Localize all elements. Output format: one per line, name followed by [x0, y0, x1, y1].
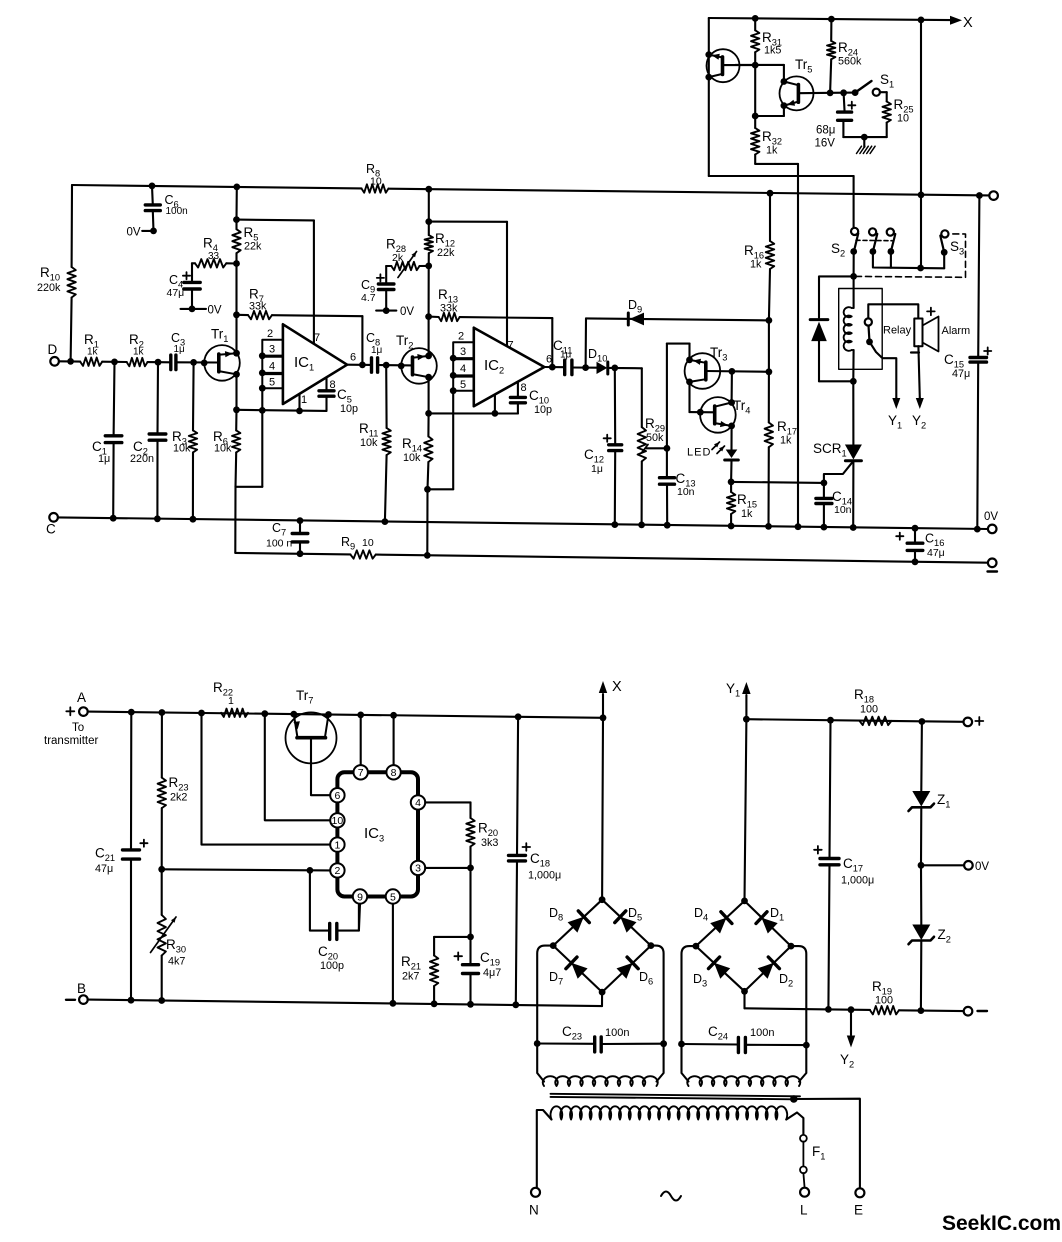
resistor R10 — [71, 185, 74, 267]
switch S1 — [852, 89, 859, 96]
wire IC3 pin10 line — [265, 714, 330, 821]
resistor R29 (preset) — [638, 427, 646, 461]
svg-text:R23: R23 — [169, 775, 189, 793]
capacitor C16 — [914, 528, 916, 543]
svg-text:Tr3: Tr3 — [710, 345, 727, 363]
ground 0V C4 — [181, 308, 207, 310]
wire R6 down to R9 line — [234, 487, 236, 553]
capacitor C13 — [666, 448, 668, 477]
wire junction dot C6 — [149, 183, 156, 190]
svg-text:10k: 10k — [360, 437, 378, 449]
resistor R9 — [350, 550, 375, 558]
wire R16 to Tr3 base node — [768, 320, 770, 371]
resistor R18 in row — [860, 717, 892, 725]
wire dashed link box — [856, 234, 966, 277]
node X arrow up — [602, 694, 604, 718]
svg-text:1μ: 1μ — [174, 344, 186, 355]
capacitor C11 — [563, 360, 566, 375]
svg-text:100n: 100n — [750, 1027, 774, 1039]
wire Tr6 base to R31 bottom — [723, 64, 756, 66]
svg-text:1k: 1k — [133, 347, 145, 358]
wire relay-diode branch — [819, 276, 854, 317]
svg-text:Y2: Y2 — [840, 1052, 854, 1070]
resistor R13 — [439, 313, 460, 321]
svg-text:Y2: Y2 — [912, 413, 926, 431]
wire IC1 output — [347, 364, 371, 366]
resistor R25 — [883, 102, 891, 123]
svg-text:0V: 0V — [127, 227, 141, 239]
capacitor C19 — [469, 937, 471, 965]
svg-text:0V: 0V — [208, 305, 222, 317]
wire main supply rail left of R8 — [72, 185, 362, 188]
transformer secondary coil 2 — [687, 1076, 800, 1086]
svg-text:560k: 560k — [838, 56, 862, 68]
wire Tr7 base to IC3 pin6 — [311, 738, 330, 796]
wire 0V stub — [921, 864, 964, 866]
wire R31 junction down to R32 node — [754, 66, 756, 116]
transistor Tr2 — [401, 348, 437, 384]
svg-text:10n: 10n — [677, 486, 695, 498]
svg-text:3: 3 — [415, 863, 421, 875]
resistor R5 — [232, 229, 240, 253]
wire junction dot right branch top — [918, 17, 925, 24]
svg-text:9: 9 — [357, 891, 363, 903]
transistor Tr3 — [685, 353, 721, 389]
svg-text:D: D — [48, 342, 58, 357]
svg-text:IC1: IC1 — [294, 354, 314, 373]
svg-text:Tr4: Tr4 — [733, 398, 750, 416]
svg-text:7: 7 — [508, 340, 514, 352]
wire IC1 pin8 lead — [325, 377, 327, 391]
svg-text:16V: 16V — [815, 138, 836, 150]
svg-text:D8: D8 — [549, 906, 563, 923]
resistor R1 — [80, 358, 102, 366]
svg-text:S2: S2 — [831, 241, 845, 259]
fuse F1 — [800, 1135, 807, 1142]
wire R5 branch top — [235, 187, 237, 220]
svg-text:transmitter: transmitter — [44, 735, 98, 747]
resistor R15 — [727, 492, 735, 514]
wire D10 to R29 corner — [608, 367, 642, 369]
wire zener chain top — [920, 722, 923, 791]
capacitor C10 — [510, 396, 525, 399]
svg-text:4k7: 4k7 — [168, 956, 185, 968]
svg-text:3: 3 — [460, 346, 466, 358]
svg-text:Z1: Z1 — [937, 792, 950, 810]
wire Tr5 emitter down to R32 node — [783, 106, 785, 116]
IC3 pin 10 — [330, 813, 344, 827]
svg-text:100n: 100n — [605, 1027, 629, 1039]
svg-text:R15: R15 — [737, 492, 757, 510]
wire Tr5 output row — [798, 92, 855, 95]
svg-text:1: 1 — [334, 839, 340, 851]
wire secondary1 right — [657, 1044, 664, 1082]
IC3 pin 5 — [386, 889, 400, 903]
wire bridge2 left loop — [682, 946, 696, 1044]
wire S2 pole1 down to relay node — [853, 252, 855, 277]
transistor Tr6 (unlabelled) — [707, 49, 740, 82]
wire R2-C3 — [148, 361, 171, 363]
IC3 pin 3 — [411, 861, 425, 875]
svg-text:2k7: 2k7 — [402, 971, 419, 983]
relay coil — [853, 276, 855, 308]
resistor R3 — [192, 362, 195, 430]
terminal A — [79, 707, 88, 716]
zener Z1 — [912, 791, 930, 807]
wire junction dot R12 branch — [425, 186, 432, 193]
wire zener mid — [920, 807, 922, 865]
svg-text:1k: 1k — [741, 508, 753, 520]
capacitor C3 — [169, 355, 172, 370]
alarm sounder — [914, 319, 922, 347]
wire IC2 output — [544, 366, 564, 368]
svg-text:22k: 22k — [244, 241, 262, 253]
resistor R19 in line — [870, 1006, 899, 1014]
svg-text:D1: D1 — [770, 906, 784, 923]
node Y2 arrow down — [850, 1010, 852, 1035]
IC3 pin 4 — [411, 795, 425, 809]
svg-text:R11: R11 — [359, 421, 378, 439]
ground 0V C6 — [142, 230, 153, 232]
wire Tr3 collector to Tr4 base — [688, 382, 690, 412]
resistor R8 — [362, 184, 389, 192]
IC3 pin 1 — [330, 837, 344, 851]
terminal plus right — [964, 718, 973, 727]
svg-text:C18: C18 — [530, 851, 550, 869]
svg-text:0V: 0V — [984, 511, 998, 523]
wire R5 to R7 node — [235, 264, 237, 315]
svg-text:Y1: Y1 — [888, 413, 902, 431]
wire R7 feedback drop — [361, 316, 363, 365]
svg-text:1k: 1k — [780, 435, 792, 447]
svg-text:C10: C10 — [529, 388, 549, 406]
LED — [726, 450, 738, 459]
wire R9 line right — [376, 555, 988, 563]
diode D11 (relay catch) — [811, 322, 827, 342]
ground 0V C9 — [376, 310, 396, 312]
svg-text:10p: 10p — [534, 404, 552, 416]
capacitor C23 — [537, 1042, 595, 1044]
svg-text:2k2: 2k2 — [170, 792, 187, 804]
capacitor C18 — [517, 717, 518, 856]
wire B rail — [88, 1000, 602, 1007]
svg-text:LED: LED — [687, 447, 711, 459]
svg-text:C21: C21 — [95, 846, 115, 864]
node Y1 arrow — [892, 398, 900, 409]
svg-text:100: 100 — [875, 995, 893, 1007]
svg-text:1: 1 — [228, 695, 234, 707]
wire S1 to R25 — [880, 91, 887, 93]
capacitor C15 — [970, 356, 987, 359]
wire bridge1 left loop — [537, 946, 553, 1044]
svg-text:C20: C20 — [318, 944, 338, 962]
svg-text:4: 4 — [415, 797, 421, 809]
wire long drop x=798 to 0V rail — [797, 164, 799, 527]
capacitor C7 — [299, 521, 301, 534]
svg-text:1k: 1k — [87, 347, 99, 358]
resistor R24 — [827, 41, 835, 59]
svg-text:33k: 33k — [249, 301, 267, 313]
svg-text:10k: 10k — [214, 443, 232, 455]
wire IC3 pin2 line — [162, 869, 331, 870]
wire R21 branch — [434, 936, 470, 938]
wire C13 node up and over to Tr3 emitter — [666, 344, 668, 449]
wire IC3 pin4 line — [425, 801, 470, 803]
capacitor C20 loop — [310, 870, 330, 930]
svg-text:R14: R14 — [402, 436, 422, 454]
terminal L — [800, 1188, 809, 1197]
resistor R31 — [751, 30, 759, 52]
svg-text:47μ: 47μ — [952, 368, 970, 380]
capacitor C1 — [113, 362, 116, 436]
svg-text:R12: R12 — [435, 231, 455, 249]
resistor R14 — [424, 436, 432, 462]
svg-text:10k: 10k — [403, 452, 421, 464]
wire Tr6 jog over to S2 — [709, 175, 854, 177]
resistor R6 — [235, 374, 237, 410]
relay box — [839, 289, 883, 370]
IC3 pin 8 — [386, 765, 400, 779]
wire zener chain bottom — [920, 941, 922, 1011]
svg-text:IC2: IC2 — [484, 357, 504, 376]
svg-text:6: 6 — [350, 352, 356, 364]
svg-text:Alarm: Alarm — [942, 325, 971, 337]
svg-text:D3: D3 — [693, 972, 707, 989]
wire R29 drop — [641, 368, 643, 427]
svg-text:Tr5: Tr5 — [795, 57, 812, 75]
wire bridge2 minus to R19 line — [743, 991, 745, 1008]
svg-text:D10: D10 — [588, 347, 607, 364]
wire secondary1 left — [537, 1044, 544, 1082]
svg-text:C15: C15 — [944, 352, 964, 370]
svg-text:IC3: IC3 — [364, 825, 384, 844]
thyristor SCR1 — [852, 381, 854, 444]
resistor R23 — [158, 778, 166, 809]
svg-text:0V: 0V — [975, 861, 989, 873]
wire junction dot R24 top — [828, 16, 835, 23]
svg-text:33k: 33k — [440, 303, 458, 315]
svg-text:47μ: 47μ — [167, 287, 185, 299]
svg-text:22k: 22k — [437, 247, 455, 259]
capacitor C9 — [386, 265, 391, 267]
svg-text:E: E — [854, 1203, 863, 1218]
svg-text:To: To — [72, 722, 84, 734]
terminal N — [531, 1188, 540, 1197]
svg-text:1μ: 1μ — [371, 345, 383, 356]
wire 0V rail — [58, 517, 988, 529]
svg-text:47μ: 47μ — [95, 863, 113, 875]
resistor R22 — [221, 709, 248, 717]
wire alarm to Y2 — [918, 346, 919, 398]
switch S2 pole2 — [869, 228, 876, 235]
terminal D — [50, 357, 59, 366]
svg-text:7: 7 — [358, 767, 364, 779]
wire R14 down to R9 line — [426, 489, 428, 555]
svg-text:1: 1 — [301, 394, 307, 406]
svg-text:C24: C24 — [708, 1024, 728, 1042]
svg-text:4: 4 — [460, 363, 466, 375]
svg-text:4μ7: 4μ7 — [483, 967, 501, 979]
svg-text:7: 7 — [314, 332, 320, 344]
svg-text:6: 6 — [546, 354, 552, 366]
transformer core — [551, 1094, 801, 1097]
svg-text:5: 5 — [269, 377, 275, 389]
wire 0V rail dots — [110, 515, 117, 522]
wire R12 branch — [428, 189, 430, 221]
resistor R16 — [766, 241, 774, 269]
svg-text:1μ: 1μ — [591, 463, 603, 475]
svg-text:A: A — [77, 690, 86, 705]
wire relay contact top to alarm — [868, 304, 918, 318]
svg-text:8: 8 — [521, 382, 527, 394]
wire junction dot right rail top — [976, 192, 983, 199]
terminal 0V bottom — [964, 861, 973, 870]
svg-text:D7: D7 — [549, 970, 563, 987]
ground symbol — [861, 134, 868, 141]
wire IC2 pin1 lead — [494, 395, 496, 414]
svg-text:10: 10 — [362, 537, 374, 549]
svg-text:R29: R29 — [645, 416, 665, 434]
op-amp IC2 triangle — [474, 328, 545, 407]
svg-text:68μ: 68μ — [816, 125, 835, 137]
diode D5 — [620, 917, 636, 933]
wire Tr3 base row — [706, 370, 769, 373]
resistor R7 — [248, 311, 272, 319]
svg-text:1k5: 1k5 — [764, 45, 781, 57]
svg-text:47μ: 47μ — [927, 547, 945, 559]
wire diode to SCR node — [819, 380, 853, 382]
wire junction dot R16 branch — [767, 190, 774, 197]
wire R7 node to Tr1 — [235, 315, 237, 353]
node X arrow — [950, 16, 962, 25]
transistor Tr4 — [700, 397, 736, 433]
svg-text:R10: R10 — [40, 265, 60, 283]
wire R32 bottom jog to long drop — [754, 155, 756, 164]
resistor R21 — [430, 956, 438, 987]
svg-text:C: C — [46, 522, 56, 537]
op-amp IC1 pin boxes — [262, 340, 283, 356]
op-amp IC1 triangle — [283, 324, 347, 404]
diode D7 — [571, 963, 587, 979]
svg-text:C5: C5 — [337, 387, 352, 405]
wire C11 to D10 — [572, 366, 597, 368]
svg-text:C19: C19 — [480, 950, 500, 968]
terminal minus right — [988, 559, 997, 568]
svg-text:X: X — [612, 679, 622, 695]
terminal minus bottom — [964, 1007, 973, 1016]
AC tilde symbol — [661, 1192, 681, 1201]
wire C19 branch — [469, 868, 471, 937]
svg-text:5: 5 — [460, 379, 466, 391]
svg-text:D6: D6 — [639, 970, 653, 987]
wire junction dot 68u top — [840, 89, 847, 96]
wire Tr4 collector riser — [731, 371, 733, 402]
wire SCR gate bend — [824, 463, 852, 483]
wire IC2 pin7 feed — [429, 221, 507, 223]
wire Y1 row — [746, 719, 963, 722]
svg-text:C23: C23 — [562, 1024, 582, 1042]
wire IC3 pin3 line — [425, 867, 470, 869]
svg-text:1,000μ: 1,000μ — [528, 870, 561, 882]
svg-text:C16: C16 — [925, 532, 944, 549]
wire C3 to Tr1 base — [176, 361, 219, 363]
wire screen to E — [794, 1099, 860, 1189]
svg-text:D4: D4 — [694, 906, 708, 923]
wire R13 node to Tr2 collector — [428, 317, 430, 356]
diode D1 — [762, 918, 778, 934]
svg-text:33: 33 — [208, 251, 220, 262]
wire C8 to Tr2 base — [378, 364, 413, 366]
wire D to R1 — [59, 360, 80, 362]
terminal 0V right — [988, 525, 997, 534]
diode D2 — [758, 963, 774, 979]
integrated circuit IC3 body — [337, 772, 418, 896]
diode D4 — [710, 918, 726, 934]
wire S2 gang dashes — [856, 239, 892, 241]
terminal C — [49, 513, 58, 522]
switch S2 pole1 — [851, 228, 858, 235]
svg-text:6: 6 — [334, 790, 340, 802]
svg-text:D5: D5 — [628, 906, 642, 923]
wire right branch down to switch bus — [920, 20, 922, 268]
op-amp IC2 pin boxes — [453, 342, 474, 358]
wire IC3 pin1 line — [202, 713, 331, 845]
svg-text:S3: S3 — [950, 239, 964, 257]
wire IC3 pin5 lead — [392, 904, 394, 1004]
resistor R20 — [466, 818, 474, 847]
wire secondary2 left — [682, 1044, 689, 1082]
wire IC2 pin8 lead — [517, 382, 519, 398]
wire Y1 line down to bridge2 — [745, 719, 747, 901]
wire IC3 pin9 to C20 — [359, 904, 360, 931]
wire Tr2 emitter to pin1 node — [428, 377, 430, 413]
svg-text:N: N — [529, 1203, 539, 1218]
svg-text:SCR1: SCR1 — [813, 441, 847, 459]
wire R19 line — [745, 1008, 871, 1010]
wire A rail — [88, 712, 603, 718]
svg-text:10: 10 — [332, 815, 344, 827]
wire R25 bottom to ground row — [886, 123, 888, 138]
svg-text:Tr2: Tr2 — [396, 333, 413, 351]
wire SCR gate row — [731, 482, 824, 483]
resistor R17 — [765, 423, 773, 448]
resistor R11 — [385, 365, 387, 428]
svg-text:10k: 10k — [173, 443, 191, 455]
relay contact — [865, 318, 872, 325]
svg-text:2: 2 — [267, 328, 273, 340]
wire junction dot switch drop — [918, 192, 925, 199]
capacitor C12 — [614, 368, 617, 445]
transformer secondary coil 1 — [543, 1076, 658, 1086]
svg-text:5: 5 — [390, 891, 396, 903]
diode D10 — [597, 362, 608, 374]
svg-text:10n: 10n — [834, 504, 852, 516]
wire IC2 pin rail jog — [428, 488, 454, 490]
svg-text:1k: 1k — [750, 259, 762, 271]
capacitor C17 — [830, 720, 831, 858]
wire junction dot R24 bottom — [827, 90, 834, 97]
svg-text:L: L — [800, 1203, 808, 1218]
svg-text:1,000μ: 1,000μ — [841, 875, 874, 887]
svg-text:R30: R30 — [166, 937, 186, 955]
svg-text:2: 2 — [334, 865, 340, 877]
svg-text:S1: S1 — [880, 72, 894, 90]
svg-text:1μ: 1μ — [560, 350, 572, 361]
switch S2 pole3 — [887, 229, 894, 236]
svg-text:1μ: 1μ — [98, 453, 110, 465]
wire A rail dots — [128, 709, 135, 716]
resistor R30 (preset) — [158, 915, 166, 956]
